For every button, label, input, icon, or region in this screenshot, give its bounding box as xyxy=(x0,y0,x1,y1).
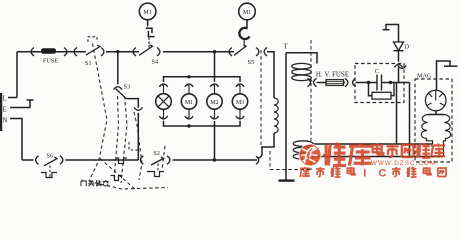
svg-text:S5: S5 xyxy=(248,59,255,66)
svg-text:S6: S6 xyxy=(47,154,53,160)
svg-text:H. V. FUSE: H. V. FUSE xyxy=(316,71,349,79)
svg-text:FUSE: FUSE xyxy=(43,58,58,65)
svg-text:I: I xyxy=(363,168,366,180)
svg-text:L: L xyxy=(3,95,7,103)
svg-text:MAG: MAG xyxy=(417,73,432,80)
svg-text:S4: S4 xyxy=(152,59,159,66)
svg-text:M1: M1 xyxy=(243,10,251,16)
svg-text:S1: S1 xyxy=(85,60,92,67)
svg-text:S2: S2 xyxy=(154,151,160,157)
svg-text:E: E xyxy=(3,106,7,114)
svg-text:M2: M2 xyxy=(210,100,218,106)
svg-text:WWW.DZSC.COM: WWW.DZSC.COM xyxy=(371,160,436,167)
svg-text:C: C xyxy=(379,168,387,180)
svg-text:N: N xyxy=(3,117,8,125)
svg-text:C: C xyxy=(375,68,379,75)
svg-text:M3: M3 xyxy=(236,100,244,106)
svg-text:M1: M1 xyxy=(143,10,151,16)
svg-text:S3: S3 xyxy=(124,85,130,91)
svg-text:D: D xyxy=(405,44,410,51)
svg-text:M1: M1 xyxy=(185,100,193,106)
